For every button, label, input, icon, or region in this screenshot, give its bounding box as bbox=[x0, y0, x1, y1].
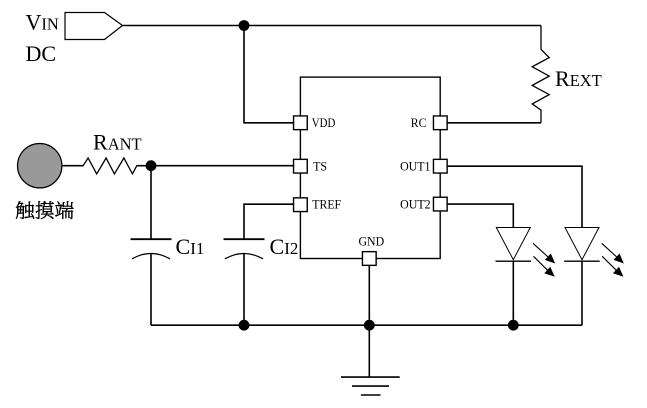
wire node down to CI1 bbox=[150, 166, 152, 240]
IC U1 body bbox=[300, 77, 440, 258]
wire CI2 to bottom rail bbox=[243, 254, 245, 326]
svg-text:CI2: CI2 bbox=[270, 234, 299, 259]
pin OUT2 bbox=[433, 197, 447, 211]
capacitor CI2 bbox=[224, 239, 265, 259]
pin VDD bbox=[294, 116, 308, 130]
svg-text:DC: DC bbox=[26, 41, 57, 66]
wire OUT2 to LED D1 bbox=[447, 204, 514, 227]
svg-text:GND: GND bbox=[358, 233, 384, 248]
svg-text:VDD: VDD bbox=[312, 115, 336, 130]
touch pad terminal bbox=[18, 144, 62, 188]
wire OUT1 to LED D2 bbox=[447, 166, 582, 227]
svg-text:TREF: TREF bbox=[312, 197, 341, 212]
svg-text:REXT: REXT bbox=[555, 66, 602, 91]
svg-text:RC: RC bbox=[411, 115, 427, 130]
label 触摸端 bbox=[16, 201, 74, 219]
node TS junction bbox=[146, 160, 157, 171]
junction GND bottom rail bbox=[364, 320, 375, 331]
pin OUT1 bbox=[433, 159, 447, 173]
LED D1 arrows bbox=[533, 243, 555, 276]
wire LED D2 to bottom rail bbox=[581, 261, 583, 325]
LED D2 bbox=[564, 228, 600, 262]
wire GND pin down bbox=[368, 265, 370, 377]
pin GND bbox=[362, 252, 376, 266]
wire top rail bbox=[123, 25, 542, 27]
LED D2 arrows bbox=[602, 243, 624, 276]
svg-text:TS: TS bbox=[313, 158, 327, 173]
resistor RANT bbox=[83, 158, 137, 174]
wire VDD branch bbox=[244, 26, 294, 123]
ground symbol bbox=[341, 377, 400, 395]
svg-text:RANT: RANT bbox=[93, 130, 142, 155]
junction CI2 bottom bbox=[239, 320, 250, 331]
svg-text:CI1: CI1 bbox=[176, 234, 205, 259]
pin RC bbox=[433, 116, 447, 130]
connector VIN DC bbox=[65, 13, 123, 40]
svg-text:OUT1: OUT1 bbox=[400, 158, 430, 173]
wire node to TS pin bbox=[151, 165, 294, 167]
junction LED D1 bottom rail bbox=[508, 320, 519, 331]
wire REXT to RC bbox=[447, 122, 541, 124]
svg-text:OUT2: OUT2 bbox=[400, 197, 431, 212]
pin TREF bbox=[294, 198, 308, 212]
junction top rail / VDD bbox=[239, 20, 250, 31]
capacitor CI1 bbox=[131, 239, 172, 259]
wire bottom rail bbox=[151, 324, 582, 326]
wire RANT to TS node bbox=[137, 165, 152, 167]
wire pad to RANT bbox=[62, 165, 84, 167]
LED D1 bbox=[496, 228, 532, 262]
svg-text:VIN: VIN bbox=[26, 10, 59, 35]
pin TS bbox=[294, 159, 308, 173]
wire TREF to CI2 bbox=[244, 204, 294, 239]
wire LED D1 to bottom rail bbox=[512, 261, 514, 325]
resistor REXT bbox=[532, 26, 549, 123]
wire CI1 to bottom rail bbox=[150, 254, 152, 326]
